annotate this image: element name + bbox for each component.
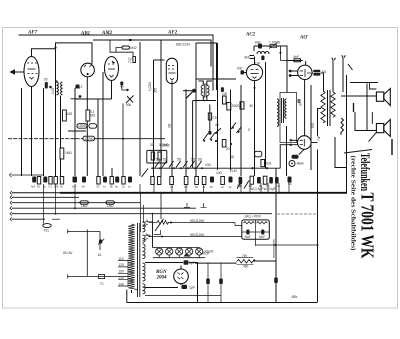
svg-text:1,19MΩ: 1,19MΩ — [269, 41, 281, 45]
svg-text:30: 30 — [170, 185, 173, 189]
svg-text:MΩ: MΩ — [311, 122, 315, 128]
svg-text:4μ: 4μ — [43, 185, 46, 189]
svg-text:/88v: /88v — [292, 295, 298, 299]
svg-text:J05: J05 — [154, 88, 158, 93]
svg-text:8nF: 8nF — [245, 56, 251, 60]
svg-text:0,1MΩ: 0,1MΩ — [159, 143, 169, 147]
svg-text:AC2: AC2 — [245, 33, 256, 38]
svg-text:8μ: 8μ — [259, 184, 262, 188]
svg-text:0,1: 0,1 — [49, 185, 53, 189]
svg-text:AF2: AF2 — [167, 31, 178, 36]
svg-text:5n: 5n — [239, 184, 242, 188]
svg-text:AB1: AB1 — [80, 32, 90, 37]
svg-text:220: 220 — [119, 276, 125, 280]
svg-text:20: 20 — [226, 147, 230, 151]
svg-text:12000: 12000 — [85, 137, 94, 141]
svg-text:50: 50 — [37, 185, 40, 189]
svg-text:2004: 2004 — [156, 275, 168, 280]
svg-text:CL: CL — [128, 60, 132, 64]
svg-text:8k: 8k — [110, 185, 113, 189]
svg-text:5Ω: 5Ω — [163, 158, 168, 162]
svg-text:2M: 2M — [168, 123, 172, 128]
svg-text:4n: 4n — [277, 184, 280, 188]
svg-text:7W: 7W — [242, 254, 247, 258]
svg-text:0,3: 0,3 — [184, 185, 188, 189]
svg-text:JALL~7000: JALL~7000 — [245, 215, 261, 219]
svg-text:Telefunken: Telefunken — [358, 153, 372, 191]
svg-text:4μ: 4μ — [229, 185, 232, 189]
svg-text:5Ω: 5Ω — [156, 158, 161, 162]
svg-text:100: 100 — [222, 92, 228, 96]
svg-text:1,02M: 1,02M — [148, 82, 152, 91]
svg-text:M42: M42 — [131, 46, 137, 50]
svg-text:3,2: 3,2 — [78, 85, 83, 89]
svg-text:9nF: 9nF — [237, 67, 243, 71]
svg-text:50: 50 — [195, 185, 198, 189]
svg-text:(rechte Seite des Schaltbildes: (rechte Seite des Schaltbildes) — [350, 156, 357, 251]
svg-text:AO': AO' — [299, 36, 309, 41]
svg-text:ELM: ELM — [230, 169, 237, 173]
svg-text:HD AV: HD AV — [63, 251, 73, 255]
svg-text:10k: 10k — [54, 185, 59, 189]
svg-text:TEL: TEL — [44, 229, 50, 233]
svg-text:HEIZUNG: HEIZUNG — [190, 219, 205, 223]
svg-text:LND: LND — [81, 204, 88, 208]
svg-text:3Ω: 3Ω — [150, 143, 155, 147]
svg-text:1MΩ: 1MΩ — [66, 112, 73, 116]
svg-text:150: 150 — [119, 270, 125, 274]
svg-text:5Ω: 5Ω — [177, 158, 182, 162]
svg-text:T1: T1 — [100, 282, 104, 286]
svg-text:NuF: NuF — [245, 235, 252, 239]
svg-text:+REM: +REM — [200, 252, 209, 256]
svg-text:1M: 1M — [249, 184, 253, 188]
svg-text:S: S — [248, 128, 250, 132]
svg-text:1μF: 1μF — [189, 261, 195, 265]
svg-text:4μF: 4μF — [72, 185, 77, 189]
svg-text:5Ω: 5Ω — [198, 158, 203, 162]
svg-text:NuF: NuF — [259, 235, 266, 239]
svg-text:5Ω: 5Ω — [191, 158, 196, 162]
svg-text:110: 110 — [119, 257, 124, 261]
svg-text:ABv: ABv — [296, 160, 305, 165]
svg-text:12000: 12000 — [78, 124, 87, 128]
svg-text:RGN: RGN — [156, 270, 167, 275]
svg-text:1kΩ: 1kΩ — [266, 162, 272, 166]
svg-text:4μF: 4μF — [31, 185, 36, 189]
svg-text:9nF: 9nF — [294, 55, 300, 59]
svg-text:1,02: 1,02 — [51, 88, 55, 94]
svg-text:40: 40 — [215, 123, 219, 127]
svg-text:5000: 5000 — [232, 104, 239, 108]
svg-text:2n: 2n — [221, 185, 224, 189]
svg-text:50k: 50k — [126, 103, 132, 107]
svg-text:2k: 2k — [122, 185, 125, 189]
svg-text:1nF: 1nF — [255, 62, 261, 66]
svg-text:1k: 1k — [203, 185, 206, 189]
svg-text:4μ: 4μ — [115, 185, 118, 189]
svg-text:450: 450 — [243, 265, 249, 269]
svg-text:50: 50 — [288, 182, 292, 186]
svg-text:125: 125 — [119, 263, 125, 267]
svg-text:AF7: AF7 — [27, 31, 38, 36]
svg-text:8n: 8n — [210, 185, 213, 189]
svg-text:MΩ: MΩ — [90, 114, 96, 118]
svg-text:1n: 1n — [103, 185, 106, 189]
svg-text:LND: LND — [107, 204, 114, 208]
svg-text:50: 50 — [44, 78, 48, 82]
svg-text:HEIZUNG: HEIZUNG — [190, 233, 205, 237]
svg-text:10Ω: 10Ω — [205, 163, 212, 167]
svg-text:8nF: 8nF — [255, 41, 261, 45]
svg-text:Ca: Ca — [213, 116, 217, 120]
svg-text:1μF: 1μF — [189, 285, 195, 289]
svg-text:40: 40 — [120, 85, 124, 89]
svg-text:M2: M2 — [322, 70, 327, 74]
svg-text:10Ω: 10Ω — [216, 171, 223, 175]
svg-text:AM2: AM2 — [101, 31, 113, 36]
svg-text:8n: 8n — [82, 185, 85, 189]
svg-text:7nF: 7nF — [317, 135, 321, 141]
svg-text:T 7001 WK: T 7001 WK — [358, 193, 378, 259]
svg-text:4Ω: 4Ω — [230, 155, 235, 159]
svg-text:240: 240 — [119, 282, 125, 286]
svg-text:50: 50 — [97, 185, 100, 189]
svg-text:1n: 1n — [128, 185, 131, 189]
svg-text:80: 80 — [250, 104, 254, 108]
svg-text:4μF: 4μF — [270, 187, 276, 191]
svg-text:2k: 2k — [60, 185, 63, 189]
svg-text:⊣: ⊣ — [298, 102, 301, 106]
svg-text:1MΩ: 1MΩ — [65, 151, 72, 155]
svg-text:EBC1234: EBC1234 — [176, 43, 190, 47]
svg-text:1A: 1A — [98, 253, 103, 257]
